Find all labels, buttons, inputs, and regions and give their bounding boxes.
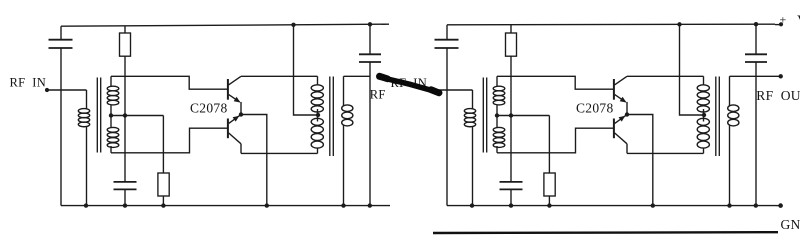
wire T2 primary top lead — [317, 76, 319, 85]
wire +V rail extension — [775, 24, 781, 26]
wire C3 line to ground — [369, 62, 371, 206]
junction tap-bias line — [509, 113, 513, 117]
wire T secondary top lead — [110, 76, 112, 86]
wire R1 to C2 — [510, 56, 512, 182]
wire T2 secondary bottom lead to ground — [343, 125, 345, 205]
wire left branch lower segment — [60, 48, 62, 206]
transistor Q3 emitter stroke with arrow — [615, 95, 627, 103]
wire emitters to ground — [241, 115, 267, 206]
transistor Q3 collector stroke — [615, 76, 627, 85]
transistor Q3 C2078 base bar — [613, 79, 615, 100]
wire +V top rail (stage 1) — [61, 24, 389, 26]
wire T2 primary bottom lead — [317, 148, 319, 154]
wire R top stub — [124, 26, 126, 33]
junction tap-bias line — [123, 113, 127, 117]
wire tap to R2 — [162, 116, 164, 174]
wire ground rail extension — [776, 205, 781, 207]
inductor T4 primary upper half — [697, 85, 709, 112]
inductor T2 secondary winding — [342, 105, 353, 126]
wire R1 to C2 — [124, 56, 126, 182]
ground reference underline — [433, 231, 778, 234]
wire T primary top lead — [472, 90, 474, 109]
junction C3-ground — [754, 203, 758, 207]
junction tap-rail — [677, 22, 681, 26]
transistor Q1 emitter stroke with arrow — [229, 95, 241, 103]
wire left branch lower segment — [446, 48, 448, 206]
capacitor C2 tap decoupling — [114, 182, 137, 190]
transformer T3 core — [483, 78, 486, 153]
wire emitters to ground — [627, 115, 653, 206]
wire RF OUT extension — [756, 75, 781, 77]
wire T primary bottom lead to ground — [472, 127, 474, 206]
transistor Q4 C2078 base bar — [613, 119, 615, 139]
wire C3 top stub — [755, 24, 757, 54]
transistor Q2 C2078 base bar — [227, 119, 229, 139]
wire ground bottom rail (stage 1) — [61, 205, 390, 207]
transistor Q1 collector stroke — [229, 76, 241, 85]
wire secondary top to Q1 base — [111, 76, 227, 89]
wire ground bottom rail (stage 2) — [447, 205, 776, 207]
wire RF input — [433, 89, 473, 91]
wire R top stub — [510, 25, 512, 33]
node RF IN terminal (stage 2) — [431, 88, 435, 92]
transistor Q4 collector stroke — [615, 133, 627, 144]
inductor T3 secondary lower half — [493, 127, 505, 147]
wire output node — [344, 75, 371, 77]
wire T2 secondary top lead — [343, 76, 345, 105]
junction R2-ground — [161, 203, 165, 207]
inductor T3 secondary upper half — [493, 86, 505, 105]
node RF OUT terminal — [779, 74, 783, 78]
inductor T4 secondary winding — [728, 105, 739, 126]
wire left branch upper segment — [60, 26, 62, 40]
inductor T1 secondary upper half — [107, 86, 119, 105]
junction primary-ground — [470, 203, 474, 207]
capacitor C4 supply bypass — [435, 40, 459, 48]
junction T2 primary centre tap — [702, 113, 706, 117]
inductor T2 primary lower half — [311, 118, 323, 148]
node GND terminal — [778, 203, 783, 208]
wire T secondary top lead — [496, 76, 498, 86]
node +V supply terminal — [779, 22, 783, 26]
wire T2 primary top lead — [703, 76, 705, 85]
junction emitters — [625, 112, 629, 116]
wire tap to +V rail — [680, 24, 704, 115]
resistor R3 bias upper — [506, 33, 517, 56]
resistor R2 bias lower — [158, 173, 169, 196]
capacitor C6 output coupling — [745, 54, 767, 62]
wire tap to +V rail — [294, 25, 318, 115]
inductor T3 primary winding — [464, 109, 475, 127]
junction rail-C3 — [368, 22, 372, 26]
wire output node — [730, 75, 757, 77]
transformer T2 core — [330, 77, 334, 157]
wire R2 to ground — [162, 196, 164, 206]
capacitor C5 tap decoupling — [500, 182, 523, 190]
wire secondary centre-tap segment — [110, 105, 112, 128]
wire T2 secondary top lead — [729, 76, 731, 105]
transistor Q2 emitter stroke with arrow — [229, 115, 241, 123]
svg-text:GND: GND — [781, 217, 800, 232]
node RF IN terminal (stage 1) — [45, 88, 49, 92]
svg-text:RF: RF — [370, 88, 386, 102]
wire secondary bottom to Q2 base — [497, 128, 613, 153]
wire secondary bottom to Q2 base — [111, 128, 227, 153]
wire T2 secondary bottom lead to ground — [729, 125, 731, 205]
wire Q2 collector drop — [240, 144, 242, 154]
junction C3-ground — [368, 203, 372, 207]
wire Q1 emitter drop — [240, 102, 242, 115]
wire secondary centre-tap segment — [496, 105, 498, 128]
wire Q2 collector drop — [626, 144, 628, 154]
transformer T1 core — [97, 78, 100, 153]
junction secondary-ground — [727, 203, 731, 207]
wire Q2 collector to T2 — [241, 152, 318, 154]
junction emitter-ground — [651, 203, 655, 207]
wire tap to R2 — [548, 116, 550, 174]
junction T2 primary centre tap — [316, 113, 320, 117]
wire RF input — [47, 89, 87, 91]
wire T secondary bottom lead — [110, 146, 112, 153]
wire left branch upper segment — [446, 25, 448, 40]
wire T primary bottom lead to ground — [86, 127, 88, 206]
wire T2 primary tap segment — [317, 109, 319, 122]
junction emitters — [239, 112, 243, 116]
junction tap-rail — [291, 23, 295, 27]
transistor Q2 collector stroke — [229, 133, 241, 144]
wire centre-tap bias — [497, 115, 549, 117]
transistor Q4 emitter stroke with arrow — [615, 115, 627, 123]
wire C2 to ground — [510, 189, 512, 205]
junction C2-ground — [509, 203, 513, 207]
wire C3 top stub — [369, 24, 371, 54]
inductor T4 primary lower half — [697, 118, 709, 148]
wire Q2 collector to T2 — [627, 152, 704, 154]
wire centre-tap bias — [111, 115, 163, 117]
resistor R4 bias lower — [544, 173, 555, 196]
svg-text:RF IN: RF IN — [10, 76, 47, 90]
wire T2 primary tap segment — [703, 109, 705, 122]
wire C2 to ground — [124, 189, 126, 205]
junction secondary centre tap — [495, 113, 499, 117]
junction emitter-ground — [265, 203, 269, 207]
transformer T4 core — [716, 77, 720, 157]
inductor T1 primary winding — [78, 109, 89, 127]
junction rail-C3 — [754, 22, 758, 26]
svg-text:C2078: C2078 — [576, 100, 614, 115]
junction secondary centre tap — [109, 113, 113, 117]
capacitor C3 output coupling — [359, 54, 381, 62]
inductor T2 primary upper half — [311, 85, 323, 112]
junction primary-ground — [84, 203, 88, 207]
wire Q1 collector to T2 — [627, 75, 704, 77]
wire T2 primary bottom lead — [703, 148, 705, 154]
wire Q1 collector to T2 — [241, 75, 318, 77]
svg-text:+: + — [780, 13, 787, 27]
wire R2 to ground — [548, 196, 550, 206]
wire C3 line to ground — [755, 62, 757, 206]
wire T primary top lead — [86, 90, 88, 109]
wire T secondary bottom lead — [496, 146, 498, 153]
capacitor C1 supply bypass — [49, 40, 73, 48]
wire secondary top to Q1 base — [497, 76, 613, 89]
wire Q1 emitter drop — [626, 102, 628, 115]
transistor Q1 C2078 base bar — [227, 79, 229, 100]
svg-text:RF OUT: RF OUT — [756, 88, 800, 103]
inductor T1 secondary lower half — [107, 127, 119, 147]
svg-text:C2078: C2078 — [190, 100, 228, 115]
junction C2-ground — [123, 203, 127, 207]
resistor R1 bias upper — [120, 33, 131, 56]
annotation scribble stroke — [379, 76, 440, 93]
junction secondary-ground — [341, 203, 345, 207]
wire +V top rail (stage 2) — [447, 23, 775, 26]
junction R2-ground — [547, 203, 551, 207]
